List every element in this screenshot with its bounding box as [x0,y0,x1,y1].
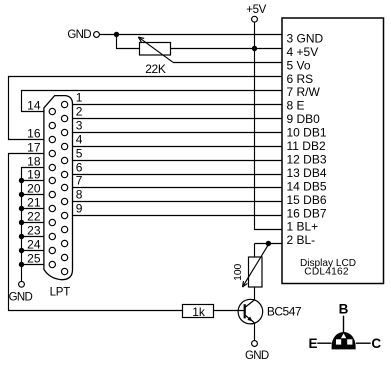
node +5V supply [246,4,266,22]
label LPT pin 8 [76,188,83,202]
svg-text:8: 8 [76,188,83,202]
wire LPT pin 16 to display pin 6 RS [9,77,283,140]
junction GND bus pin 24 [19,248,24,253]
svg-text:C: C [371,336,381,351]
svg-text:24: 24 [27,237,41,251]
connector pin holes right column (1-13) [61,101,67,274]
svg-text:3: 3 [76,119,83,133]
display pin label 7 R/W [287,85,321,99]
transistor Q1 BC547 [238,299,263,324]
wire pot right terminal to +5V row (display pin 4) [171,48,283,50]
display pin label 1 BL+ [287,220,319,234]
wire LPT pin 1 to display [73,104,283,106]
junction GND bus pin 25 [19,262,24,267]
wire LPT pin 9 to display [73,215,283,217]
display pin label 13 DB4 [287,166,327,180]
svg-text:100: 100 [233,263,244,280]
wire trimmer to transistor collector [254,287,256,300]
svg-text:GND: GND [9,292,33,304]
svg-text:2: 2 [76,105,83,119]
svg-text:8 E: 8 E [287,99,305,113]
svg-text:2 BL-: 2 BL- [287,233,316,247]
display module U1 CDL4162 box [282,18,384,284]
label LPT pin 4 [76,133,83,147]
svg-text:1k: 1k [192,305,206,319]
label LPT pin 7 [76,174,83,188]
display pin label 11 DB2 [287,139,326,153]
display pin label 16 DB7 [287,206,327,220]
label LPT pin 14 [27,98,41,112]
label LPT pin 6 [76,161,83,175]
svg-text:7: 7 [76,174,83,188]
potentiometer 22K wiper arrow [138,37,173,62]
label LPT pin 24 [27,237,41,251]
wire LPT pin 6 to display [73,174,283,176]
node GND (LPT ground bus) [9,281,33,303]
display pin label 14 DB5 [287,179,327,193]
svg-text:16 DB7: 16 DB7 [287,206,327,220]
label 100 (rotated) [233,263,244,280]
wire LPT pin 23 to GND bus [22,236,44,238]
svg-text:13 DB4: 13 DB4 [287,166,327,180]
wire LPT pin 18 to GND bus [22,168,44,282]
wire LPT pin 25 to GND bus [22,264,44,266]
pinout icon TO-92 body [332,332,356,349]
display pin label 2 BL- [287,233,316,247]
label LPT pin 25 [27,251,41,265]
svg-text:6 RS: 6 RS [287,72,314,86]
svg-text:22: 22 [27,209,41,223]
display pin label 6 RS [287,72,314,86]
wire LPT pin 8 to display [73,201,283,203]
node GND (emitter) [245,341,269,363]
svg-text:CDL4162: CDL4162 [304,267,349,278]
svg-text:7 R/W: 7 R/W [287,85,321,99]
svg-text:14 DB5: 14 DB5 [287,179,327,193]
display pin label 4 +5V [287,45,319,59]
wire LPT pin 20 to GND bus [22,194,44,196]
pinout icon lead E [317,342,331,344]
label LPT [50,286,71,298]
svg-text:10 DB1: 10 DB1 [287,126,327,140]
label Display LCD [300,258,356,269]
svg-text:22K: 22K [145,62,166,76]
wire LPT pin 19 to GND bus [22,180,44,182]
wire LPT pin 24 to GND bus [22,250,44,252]
wire display pin 2 BL- to trimmer [255,244,283,258]
junction GND bus pin 23 [19,234,24,239]
trimmer 100 body [249,257,263,287]
pinout label B [339,302,349,317]
wire LPT pin 4 to display [73,146,283,148]
potentiometer 22K body [140,43,171,56]
junction GND bus pin 19 [19,178,24,183]
wire LPT pin 21 to GND bus [22,208,44,210]
svg-text:21: 21 [27,195,41,209]
wire pot left terminal drop [117,35,140,49]
trimmer 100 wiper arrow [243,245,269,287]
svg-text:3 GND: 3 GND [287,31,324,45]
display pin label 10 DB1 [287,126,327,140]
svg-text:12 DB3: 12 DB3 [287,152,327,166]
label 22K [145,62,166,76]
label LPT pin 18 [27,154,41,168]
svg-text:25: 25 [27,251,41,265]
label LPT pin 22 [27,209,41,223]
wire GND terminal to display pin 3 [99,34,282,36]
svg-text:+5V: +5V [246,4,266,16]
display pin label 9 DB0 [287,112,321,126]
resistor 1k body [183,305,214,319]
junction GND / 22K pot [114,32,119,37]
svg-text:20: 20 [27,181,41,195]
label LPT pin 20 [27,181,41,195]
svg-text:11 DB2: 11 DB2 [287,139,326,153]
junction GND bus pin 22 [19,220,24,225]
svg-text:17: 17 [27,140,41,154]
svg-text:23: 23 [27,223,41,237]
wire LPT pin 3 to display [73,132,283,134]
label LPT pin 2 [76,105,83,119]
wire LPT pin 2 to display [73,118,283,120]
node GND (contrast pot top-left terminal) [67,29,99,41]
connector pin holes left column (14-25) [49,108,55,267]
pinout icon lead B [343,316,345,332]
svg-text:15 DB6: 15 DB6 [287,193,327,207]
svg-text:GND: GND [245,350,269,362]
display pin label 5 Vo [287,58,311,72]
wire LPT pin 5 to display [73,160,283,162]
svg-text:4 +5V: 4 +5V [287,45,319,59]
pinout icon lead C [356,342,371,344]
wire wiper to display pin 5 Vo [173,62,282,64]
pinout label E [308,336,317,351]
svg-text:9 DB0: 9 DB0 [287,112,321,126]
svg-text:6: 6 [76,161,83,175]
svg-text:18: 18 [27,154,41,168]
svg-text:5: 5 [76,147,83,161]
svg-text:B: B [339,302,349,317]
display pin label 8 E [287,99,305,113]
svg-text:14: 14 [27,98,41,112]
pinout label C [371,336,381,351]
display pin label 12 DB3 [287,152,327,166]
wire emitter to GND [254,323,256,341]
display pin label 3 GND [287,31,324,45]
svg-text:1: 1 [76,91,83,105]
label LPT pin 3 [76,119,83,133]
svg-text:9: 9 [76,202,83,216]
label LPT pin 5 [76,147,83,161]
svg-text:E: E [308,336,317,351]
svg-text:LPT: LPT [50,286,71,298]
label LPT pin 1 [76,91,83,105]
junction GND bus pin 20 [19,192,24,197]
label LPT pin 17 [27,140,41,154]
display pin label 15 DB6 [287,193,327,207]
label CDL4162 [304,267,349,278]
svg-text:1 BL+: 1 BL+ [287,220,319,234]
label LPT pin 16 [27,126,41,140]
wire LPT pin 22 to GND bus [22,222,44,224]
wire +5V rail down to pin 1 BL+ [255,22,283,229]
label BC547 [267,305,302,319]
svg-text:19: 19 [27,167,41,181]
label LPT pin 19 [27,167,41,181]
svg-text:4: 4 [76,133,83,147]
wire LPT pin 7 to display [73,187,283,189]
svg-text:16: 16 [27,126,41,140]
label LPT pin 21 [27,195,41,209]
wire LPT pin 17 to 1k resistor (transistor base) [9,154,183,311]
connector DB25 (LPT) outline [44,96,73,280]
svg-text:GND: GND [67,29,91,41]
label LPT pin 23 [27,223,41,237]
junction +5V rail / display pin 4 wire [252,46,257,51]
junction GND bus pin 21 [19,206,24,211]
svg-text:5 Vo: 5 Vo [287,58,311,72]
junction BL- / trimmer wiper [266,241,271,246]
svg-text:BC547: BC547 [267,305,302,319]
label LPT pin 9 [76,202,83,216]
wire LPT pin 14 to display pin 7 R/W [22,91,283,112]
wire 1k to transistor base [214,310,245,312]
